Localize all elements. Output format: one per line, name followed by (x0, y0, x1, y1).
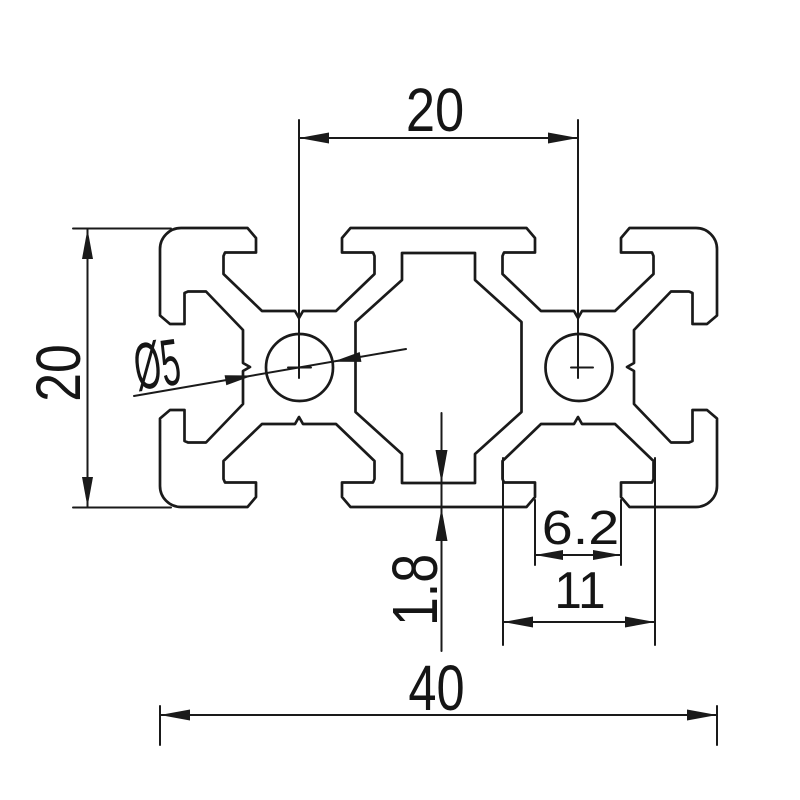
dim line 20 left (87, 229, 89, 507)
dim line 20 top (299, 137, 578, 139)
dim line 1.8 vertical (441, 413, 443, 651)
arrow of dia5 leader left (225, 375, 253, 385)
extension line / centerline right hole (577, 120, 579, 378)
dim line 6.2 (535, 554, 621, 556)
arrow of dim 11 right (625, 617, 655, 628)
arrow of dim 11 left (503, 617, 533, 628)
arrow of dim 1.8 up (436, 508, 448, 541)
extrusion profile outer outline with six T-slots (160, 228, 717, 507)
center mark left hole (288, 367, 311, 369)
extension line 40 right (716, 706, 718, 745)
extension line 20 left bottom (73, 507, 171, 509)
dim line 11 (503, 621, 655, 623)
arrow of dim 6.2 left (535, 550, 563, 560)
leader line dia5 (134, 349, 406, 396)
arrow of dim 1.8 down (436, 450, 448, 483)
extension line 6.2 right (620, 500, 622, 565)
arrow of dim 20 left top (82, 229, 93, 259)
arrow of dim 20 top right (548, 133, 578, 144)
extension line 11 left (502, 458, 504, 645)
extension line / centerline left hole (298, 120, 300, 378)
svg-text:40: 40 (408, 653, 464, 724)
svg-text:6.2: 6.2 (542, 502, 619, 556)
svg-text:1.8: 1.8 (380, 554, 451, 626)
svg-text:11: 11 (554, 561, 605, 619)
extension line 6.2 left (534, 500, 536, 565)
extension line 20 left top (73, 228, 171, 230)
arrow of dim 40 left (160, 710, 190, 721)
hole left dia5 (266, 334, 333, 401)
dim line 40 (160, 714, 717, 716)
arrow of dim 20 left bottom (82, 477, 93, 507)
arrow of dia5 leader right (333, 352, 361, 362)
arrow of dim 20 top left (299, 133, 329, 144)
center mark right hole (571, 367, 593, 369)
arrow of dim 40 right (687, 710, 717, 721)
hole right dia5 (546, 334, 613, 401)
central cavity octagon (356, 253, 522, 483)
extension line 40 left (159, 706, 161, 745)
svg-text:20: 20 (24, 344, 94, 401)
svg-text:20: 20 (406, 76, 464, 145)
arrow of dim 6.2 right (593, 550, 621, 560)
extension line 11 right (654, 458, 656, 645)
